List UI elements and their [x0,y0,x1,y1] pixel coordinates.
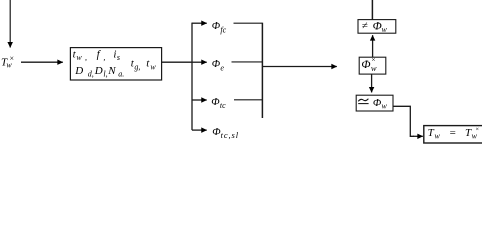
wire: branch arrow row 1 [192,22,207,24]
svg-text:Φe: Φe [212,58,225,73]
box: Phi_w^x [359,57,386,74]
box: simeq Phi_w [356,95,393,111]
box: correlation parameters [70,48,161,80]
wire: row 2 to collector [232,61,263,63]
wire: collector vertical line [261,23,263,118]
wire: branch arrow row 3 [192,99,207,101]
box: not-equal Phi_w [358,20,396,34]
svg-text:Φ: Φ [361,57,370,71]
symbol: simeq tilde [358,99,368,102]
wire: input vertical arrow top-left [9,0,11,48]
wire: row 3 to collector [234,99,262,101]
wire: arrow from T_w* into parameter box [21,61,63,63]
wire: long arrow toward Phi_w^x box [263,66,337,68]
svg-text:Φfc: Φfc [212,20,227,35]
box: result T_w = T_w^x [424,126,482,143]
svg-text:Tw×: Tw× [1,54,14,70]
wire: split vertical line [191,23,193,131]
wire: vertical line above neq box [371,0,373,20]
wire: down arrow from Phi_w^x box to simeq box [371,74,373,92]
wire: arrow into result box [413,135,423,137]
wire: up arrow from Phi_w^x box to neq box [372,35,374,57]
wire: elbow from simeq box to result box [393,106,414,136]
wire: branch arrow row 2 [192,61,207,63]
svg-text:w: w [371,63,377,73]
symbol: simeq bar [358,103,368,105]
wire: branch arrow row 4 [192,129,207,131]
wire: row 1 to collector [234,22,263,24]
wire: box output to split node [162,61,192,63]
svg-text:Φtc: Φtc [211,96,226,110]
svg-text:Φtc,sl: Φtc,sl [212,126,239,140]
